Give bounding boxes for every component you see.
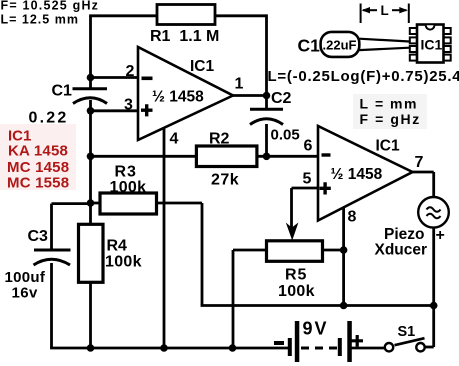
svg-text:½ 1458: ½ 1458 xyxy=(152,89,204,106)
svg-text:S1: S1 xyxy=(398,324,416,340)
junction node output/R1/C2 xyxy=(263,92,271,100)
svg-text:9V: 9V xyxy=(303,319,329,339)
battery dashed link xyxy=(301,347,337,350)
battery B1 minus sign xyxy=(274,341,284,345)
svg-text:Piezo: Piezo xyxy=(384,226,424,243)
svg-text:F= 10.525 gHz: F= 10.525 gHz xyxy=(1,0,100,13)
op-amp U1b plus xyxy=(320,182,331,194)
switch S1 left contact xyxy=(385,343,393,351)
wiper arrowhead into R5 xyxy=(286,223,299,241)
wire top to R1 xyxy=(89,14,266,17)
wire left rail below C1 xyxy=(89,100,92,348)
dimension tick right xyxy=(408,4,410,24)
switch S1 lever xyxy=(395,338,425,345)
svg-text:3: 3 xyxy=(124,97,133,114)
IC1 DIP pin R3 xyxy=(444,46,451,52)
svg-text:L = mm: L = mm xyxy=(360,96,418,112)
svg-text:IC1: IC1 xyxy=(376,138,401,155)
wire battery plus to S1 xyxy=(351,347,386,350)
svg-text:R4: R4 xyxy=(107,238,128,255)
wire pin5 input xyxy=(292,187,318,190)
svg-text:R3: R3 xyxy=(115,164,137,181)
wire pin8 down xyxy=(342,208,345,306)
dimension tick left xyxy=(360,4,362,24)
svg-text:R5: R5 xyxy=(285,267,307,284)
junction node C2/R2/pin6 xyxy=(263,153,271,161)
svg-text:C1: C1 xyxy=(298,36,321,56)
battery long plate 1 xyxy=(295,321,300,362)
svg-text:.22uF: .22uF xyxy=(323,38,357,53)
svg-text:0.05: 0.05 xyxy=(271,127,300,144)
svg-text:IC1: IC1 xyxy=(421,37,443,53)
op-amp U1a triangle xyxy=(138,47,233,140)
IC1 DIP pin L3 xyxy=(410,46,417,52)
wire pin3 input xyxy=(91,109,139,112)
svg-text:Xducer: Xducer xyxy=(375,242,428,259)
wire C3 bottom to rail xyxy=(50,263,53,348)
IC1 DIP pin L2 xyxy=(410,37,417,43)
wire rail to R2 to pin6 xyxy=(91,155,318,158)
svg-text:6: 6 xyxy=(304,138,313,155)
op-amp U1b triangle xyxy=(318,126,413,221)
wire wiper arm down xyxy=(290,188,293,228)
capacitor C1 top plate xyxy=(73,87,108,90)
C1 lead lower xyxy=(359,48,409,50)
svg-text:L=(-0.25Log(F)+0.75)25.4: L=(-0.25Log(F)+0.75)25.4 xyxy=(268,68,459,85)
op-amp U1b minus xyxy=(322,153,331,156)
wire R5 right to pin8 net xyxy=(322,249,343,252)
junction node pin3/C1 xyxy=(87,107,95,115)
IC1 DIP pin L4 xyxy=(410,55,417,61)
IC1 DIP pin L1 xyxy=(410,28,417,34)
svg-text:F = gHz: F = gHz xyxy=(360,111,421,127)
svg-text:C2: C2 xyxy=(271,90,292,107)
IC1 DIP body xyxy=(417,25,444,63)
svg-text:R2: R2 xyxy=(209,131,230,148)
capacitor C3 top plate xyxy=(34,249,71,252)
capacitor C1 package outline xyxy=(321,32,360,57)
capacitor C2 curved plate xyxy=(250,119,283,125)
svg-text:R1 1.1 M: R1 1.1 M xyxy=(150,28,219,45)
potentiometer R5 body xyxy=(267,241,323,261)
svg-text:0.22: 0.22 xyxy=(29,110,69,127)
wire C3 branch down xyxy=(50,204,53,250)
wire bottom rail xyxy=(50,347,288,350)
battery short plate 2 xyxy=(338,338,342,356)
piezo wave symbol xyxy=(427,207,441,218)
C1 lead upper xyxy=(359,39,409,42)
IC1 DIP pin R1 xyxy=(444,28,451,34)
resistor R3 body xyxy=(100,193,157,214)
resistor R2 body xyxy=(196,146,257,167)
wire top-left vertical rail xyxy=(89,16,92,88)
svg-text:100k: 100k xyxy=(110,179,147,196)
svg-text:IC1: IC1 xyxy=(190,58,215,75)
op-amp U1a plus xyxy=(141,104,153,116)
junction node piezo/bus xyxy=(430,302,438,310)
wire op-amp2 output pin7 xyxy=(412,171,434,174)
svg-text:MC 1558: MC 1558 xyxy=(7,175,69,192)
junction node pin8/bus xyxy=(340,302,348,310)
wire pin2 input xyxy=(91,76,139,79)
wire R5 left to bottom rail xyxy=(233,249,267,252)
junction node R5/pin8 xyxy=(340,246,348,254)
battery short plate 1 xyxy=(288,338,292,356)
wire mid horizontal bus xyxy=(201,304,434,307)
switch S1 right contact xyxy=(416,343,424,351)
piezo transducer body xyxy=(418,197,449,228)
svg-text:1: 1 xyxy=(235,76,244,93)
wire R5 left vertical xyxy=(232,250,235,348)
IC1 DIP pin R4 xyxy=(444,55,451,61)
battery plus sign xyxy=(352,335,364,347)
svg-text:4: 4 xyxy=(170,131,179,148)
svg-text:5: 5 xyxy=(303,171,312,188)
capacitor C2 top plate xyxy=(250,108,283,111)
IC1 DIP notch xyxy=(426,25,435,29)
svg-text:100k: 100k xyxy=(278,283,315,300)
wire R3 right corner down xyxy=(201,203,204,306)
svg-text:100uf: 100uf xyxy=(5,269,46,286)
capacitor C3 curved plate xyxy=(34,259,71,265)
wire C3 branch horizontal xyxy=(52,202,91,205)
wire pin4 down to bottom rail xyxy=(163,128,166,349)
svg-text:16v: 16v xyxy=(12,285,38,302)
capacitor C1 curved plate xyxy=(73,98,107,104)
svg-text:8: 8 xyxy=(348,209,357,226)
highlight behind red part list xyxy=(0,124,76,190)
wire output node to C2 xyxy=(265,96,268,109)
junction node pin2/C1 xyxy=(87,74,95,82)
op-amp U1a minus xyxy=(142,77,153,81)
dimension arrow right xyxy=(392,9,407,11)
junction node rail/R2 xyxy=(87,153,95,161)
resistor R4 body xyxy=(79,224,104,282)
svg-text:7: 7 xyxy=(415,154,424,171)
highlight behind units legend xyxy=(353,94,427,129)
wire op-amp1 output pin 1 xyxy=(233,94,267,97)
junction node R5net/rail xyxy=(229,344,237,352)
wire piezo bottom down xyxy=(432,228,435,348)
svg-text:KA 1458: KA 1458 xyxy=(8,143,68,160)
svg-text:+: + xyxy=(436,227,445,244)
resistor R1 body xyxy=(157,5,215,25)
svg-text:½ 1458: ½ 1458 xyxy=(331,166,383,183)
svg-text:L: L xyxy=(381,3,389,18)
svg-text:100k: 100k xyxy=(105,254,142,271)
svg-text:2: 2 xyxy=(126,63,135,80)
dimension arrow left xyxy=(363,9,377,11)
wire C2 bottom to node xyxy=(265,124,268,157)
svg-text:L= 12.5 mm: L= 12.5 mm xyxy=(1,12,79,26)
junction node rail bottom left xyxy=(87,344,95,352)
battery long plate 2 xyxy=(347,321,352,362)
wire pin7 down to piezo xyxy=(432,172,435,198)
wire rail to R3 to corner xyxy=(91,202,203,205)
wire R1 right down to output node xyxy=(265,14,268,95)
IC1 DIP pin R2 xyxy=(444,37,451,43)
svg-text:C1: C1 xyxy=(52,83,73,100)
svg-text:27k: 27k xyxy=(211,172,239,189)
svg-text:C3: C3 xyxy=(28,228,49,245)
junction node pin4/rail xyxy=(160,344,168,352)
wire S1 right to vertical xyxy=(425,346,434,349)
junction node rail/R3/C3 xyxy=(87,199,95,207)
svg-text:MC 1458: MC 1458 xyxy=(7,159,69,176)
